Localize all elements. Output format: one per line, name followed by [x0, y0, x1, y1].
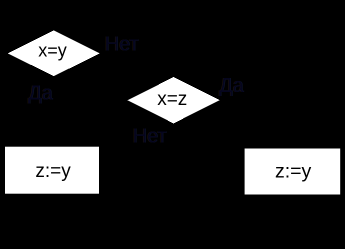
svg-text:x=y: x=y — [38, 40, 67, 60]
process box B1 — [5, 147, 99, 194]
decision diamond D2 — [128, 77, 220, 123]
svg-text:Да: Да — [28, 83, 54, 105]
svg-text:z:=y: z:=y — [275, 161, 312, 183]
svg-text:Да: Да — [219, 75, 245, 97]
svg-text:Нет: Нет — [133, 126, 167, 148]
svg-text:x=z: x=z — [157, 89, 187, 110]
svg-text:Нет: Нет — [105, 34, 139, 56]
decision diamond D1 — [8, 30, 100, 76]
process box B2 — [245, 149, 341, 195]
svg-text:z:=y: z:=y — [35, 161, 71, 182]
